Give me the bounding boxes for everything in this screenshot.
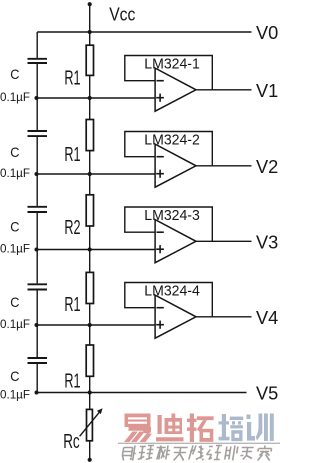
op-amp U1 non-inverting input marker (+) [156, 94, 164, 102]
node V5: junction of divider rail and node line [88, 390, 92, 394]
svg-text:R1: R1 [64, 144, 80, 166]
svg-text:LM324-1: LM324-1 [144, 56, 200, 72]
capacitor C1 ("C") plates [28, 59, 48, 63]
op-amp U1 triangle body [155, 68, 196, 111]
op-amp U3 LM324-3 feedback wire (output to inverting input) [125, 207, 213, 241]
svg-text:Rc: Rc [63, 431, 79, 453]
op-amp U3 inverting input marker (-) [157, 231, 164, 233]
svg-text:C: C [10, 66, 19, 82]
wire: net V4 node line to op-amp non-inverting input [37, 324, 155, 326]
capacitor C5 ("C") plates [28, 358, 48, 363]
wire: vertical resistor-chain rail from Vcc terminal to bottom terminal [89, 4, 91, 460]
wire: capacitor-chain rail segment 2 [36, 64, 38, 130]
svg-text:Vcc: Vcc [109, 4, 135, 25]
node Vcc top terminal [88, 2, 92, 6]
svg-text:0.1µF: 0.1µF [0, 387, 30, 401]
svg-text:R2: R2 [64, 217, 80, 239]
wire: op-amp U4 output to V4 terminal [196, 316, 252, 318]
resistor R1 (divider position 1) body [86, 45, 93, 75]
wire: net V3 node line to op-amp non-inverting input [37, 249, 155, 251]
capacitor C2 ("C") plates [28, 131, 48, 136]
resistor Rc (adjustable/thermistor) body [87, 409, 93, 440]
resistor Rc arrow (adjustable symbol) [80, 408, 103, 436]
svg-text:C: C [10, 294, 19, 310]
capacitor C3 ("C") plates [28, 207, 48, 212]
wire: capacitor-chain rail segment 1 [36, 32, 38, 58]
svg-text:C: C [10, 219, 19, 235]
wire: net V5 node line to V5 output [37, 392, 246, 394]
wire: net V1 node line to op-amp non-inverting input [37, 97, 155, 99]
op-amp U1 LM324-1 feedback wire (output to inverting input) [125, 56, 213, 90]
svg-text:V4: V4 [256, 307, 278, 328]
node V3: junction of divider rail and node line [88, 247, 92, 251]
svg-text:0.1µF: 0.1µF [0, 166, 30, 180]
capacitor C4 ("C") plates [28, 284, 48, 289]
svg-text:0.1µF: 0.1µF [0, 90, 30, 104]
op-amp U3 non-inverting input marker (+) [156, 245, 164, 253]
svg-text:0.1µF: 0.1µF [0, 317, 30, 331]
op-amp U2 LM324-2 feedback wire (output to inverting input) [125, 132, 213, 166]
node V0: junction of divider rail and node line [88, 30, 92, 34]
svg-text:V1: V1 [256, 80, 278, 101]
decorative watermark [118, 414, 280, 461]
wire: net V0 horizontal line (Vcc node to V0 output) [37, 31, 251, 33]
svg-text:R1: R1 [64, 68, 80, 90]
wire: net V2 node line to op-amp non-inverting input [37, 173, 155, 175]
svg-text:LM324-2: LM324-2 [144, 132, 200, 148]
svg-text:LM324-3: LM324-3 [144, 208, 200, 224]
op-amp U2 non-inverting input marker (+) [156, 170, 164, 178]
svg-text:C: C [10, 368, 19, 384]
svg-text:V5: V5 [256, 383, 278, 404]
svg-text:LM324-4: LM324-4 [144, 283, 200, 299]
wire: capacitor-chain rail segment 5 [36, 290, 38, 357]
svg-text:V0: V0 [256, 22, 278, 43]
svg-text:V3: V3 [256, 232, 278, 253]
resistor R1 (divider position 2) body [86, 120, 93, 151]
wire: op-amp U2 output to V2 terminal [196, 165, 252, 167]
wire: capacitor-chain rail segment 3 [36, 137, 38, 206]
svg-text:0.1µF: 0.1µF [0, 241, 30, 255]
resistor R1 (divider position 4) body [86, 272, 93, 303]
node: junction of capacitor rail with net V4 [35, 323, 39, 327]
op-amp U4 triangle body [155, 295, 196, 338]
op-amp U4 non-inverting input marker (+) [156, 321, 164, 329]
op-amp U4 inverting input marker (-) [157, 307, 164, 309]
op-amp U1 inverting input marker (-) [157, 80, 164, 82]
wire: op-amp U3 output to V3 terminal [196, 240, 252, 242]
wire: capacitor-chain rail segment 6 [36, 364, 38, 393]
resistor R2 (divider position 3) body [86, 195, 93, 226]
op-amp U3 triangle body [155, 220, 196, 263]
wire: capacitor-chain rail segment 4 [36, 213, 38, 284]
wire: op-amp U1 output to V1 terminal [196, 89, 252, 91]
svg-text:R1: R1 [64, 294, 80, 316]
node: junction of capacitor rail with net V1 [35, 96, 39, 100]
node: junction of capacitor rail with net V2 [35, 172, 39, 176]
node: junction of capacitor rail with net V3 [35, 248, 39, 252]
op-amp U4 LM324-4 feedback wire (output to inverting input) [125, 283, 213, 317]
node V2: junction of divider rail and node line [88, 172, 92, 176]
op-amp U2 inverting input marker (-) [157, 156, 164, 158]
node: bottom terminal of divider chain [88, 458, 92, 462]
svg-text:C: C [10, 144, 19, 160]
op-amp U2 triangle body [155, 144, 196, 187]
node: junction of capacitor rail with net V5 [35, 391, 39, 395]
svg-text:V2: V2 [256, 156, 278, 177]
resistor R1 (divider position 5) body [86, 345, 93, 376]
node V1: junction of divider rail and node line [88, 96, 92, 100]
node V4: junction of divider rail and node line [88, 323, 92, 327]
svg-text:R1: R1 [64, 371, 80, 393]
